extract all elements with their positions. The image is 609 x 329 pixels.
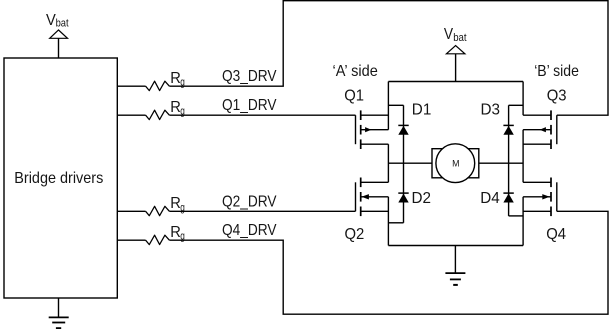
svg-text:D1: D1 (412, 102, 432, 119)
label Rg (Q4_DRV row) (170, 224, 185, 243)
transistor Q1 (356, 82, 389, 150)
power symbol V_bat (H-bridge) (446, 46, 465, 82)
svg-text:Q4: Q4 (546, 226, 566, 243)
wire D3 cathode to Q3 drain (509, 104, 523, 106)
diode D2 (398, 163, 408, 223)
ground (H-bridge) (445, 246, 465, 285)
svg-text:bat: bat (56, 18, 69, 30)
svg-text:Q3: Q3 (547, 88, 567, 105)
svg-text:bat: bat (453, 32, 466, 44)
wire Q1_DRV lead (117, 114, 145, 116)
transistor Q2 (356, 178, 389, 246)
svg-text:D4: D4 (480, 190, 500, 207)
wire top rail Vbat (388, 81, 523, 83)
transistor Q3 (523, 82, 557, 150)
node B: Q3 source / Q4 drain vertical (522, 130, 524, 183)
svg-text:M: M (452, 159, 459, 170)
resistor Rg (Q1_DRV row) (146, 110, 170, 119)
svg-text:V: V (46, 12, 56, 29)
diode D3 (503, 105, 513, 163)
svg-text:Q1: Q1 (344, 88, 364, 105)
diode D1 (398, 105, 408, 163)
wire Q2_DRV lead (117, 210, 145, 212)
ground (below Bridge drivers) (49, 298, 69, 328)
power symbol V_bat (left) (50, 30, 68, 58)
resistor Rg (Q2_DRV row) (146, 206, 170, 215)
svg-text:Q2_DRV: Q2_DRV (222, 193, 277, 210)
svg-text:Q1_DRV: Q1_DRV (222, 97, 277, 114)
label V_bat (H-bridge) (444, 26, 467, 44)
svg-text:‘A’ side: ‘A’ side (333, 63, 378, 80)
wire Q4_DRV lead (117, 239, 145, 241)
svg-text:Bridge drivers: Bridge drivers (14, 170, 103, 187)
block U1 Bridge drivers (4, 58, 117, 298)
label Rg (Q3_DRV row) (170, 70, 185, 89)
resistor Rg (Q4_DRV row) (146, 235, 170, 244)
svg-text:Q3_DRV: Q3_DRV (222, 68, 277, 85)
wire bottom rail ground (388, 245, 523, 247)
label Rg (Q2_DRV row) (170, 195, 185, 214)
svg-text:D2: D2 (412, 190, 432, 207)
label Rg (Q1_DRV row) (170, 99, 185, 118)
wire Q1 drain to D1 (388, 104, 403, 106)
wire D4 anode to Q4 source (509, 215, 523, 217)
svg-text:‘B’ side: ‘B’ side (534, 63, 579, 80)
wire Q3_DRV to top loop and Q3 gate (169, 1, 608, 116)
wire Q3_DRV lead (117, 85, 145, 87)
transistor Q4 (523, 178, 557, 246)
svg-text:Q4_DRV: Q4_DRV (222, 222, 277, 239)
wire Q2_DRV to Q2 gate (169, 210, 355, 212)
svg-text:Q2: Q2 (345, 226, 365, 243)
svg-text:D3: D3 (481, 102, 501, 119)
node A: Q1 source / Q2 drain vertical (387, 144, 389, 182)
wire Q4_DRV to bottom loop and Q4 gate (169, 211, 608, 314)
motor M (432, 144, 479, 183)
wire motor left (388, 162, 432, 164)
label V_bat (left) (46, 12, 69, 30)
diode D4 (503, 163, 513, 216)
resistor Rg (Q3_DRV row) (146, 81, 170, 90)
wire Q2 source to D2 anode (388, 222, 403, 224)
wire Q1_DRV to Q1 gate (169, 114, 355, 116)
wire motor right (479, 162, 523, 164)
